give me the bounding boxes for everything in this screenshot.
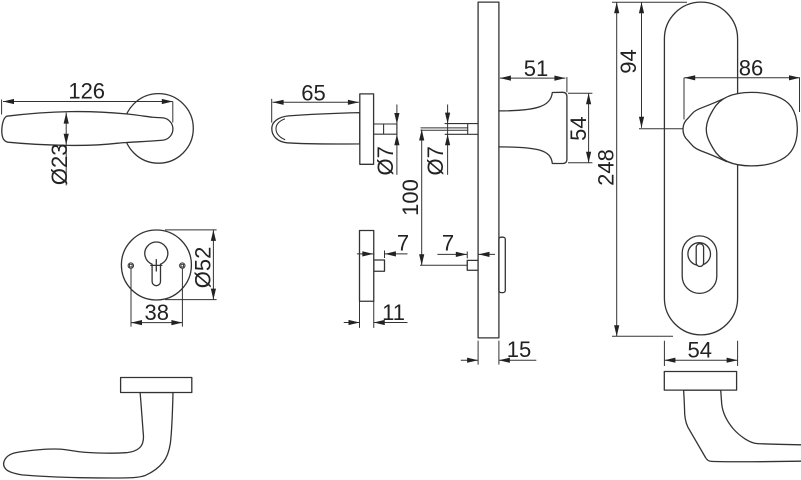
svg-text:Ø52: Ø52 bbox=[191, 247, 216, 289]
svg-text:51: 51 bbox=[524, 56, 548, 81]
arrowheads Ø23 bbox=[64, 113, 69, 124]
lever end inner arc bbox=[276, 119, 285, 140]
knob neck front view bbox=[683, 97, 727, 161]
dim Ø7 lever bbox=[396, 105, 398, 175]
key rose front view circle bbox=[121, 230, 191, 300]
arrowheads 38 bbox=[131, 320, 142, 325]
svg-text:11: 11 bbox=[382, 300, 405, 325]
dim 51 bbox=[500, 77, 567, 92]
spindle of lever bbox=[374, 124, 397, 134]
svg-text:Ø23: Ø23 bbox=[47, 144, 72, 186]
arrowheads Ø7 lever bbox=[394, 113, 399, 124]
svg-text:86: 86 bbox=[739, 56, 763, 81]
svg-text:Ø7: Ø7 bbox=[423, 146, 448, 175]
arrowheads 94 bbox=[639, 2, 644, 13]
dim 38 bbox=[131, 269, 182, 327]
arrowheads 51 bbox=[500, 76, 511, 81]
dim 248 bbox=[612, 2, 687, 336]
arrowheads dim 126 bbox=[3, 99, 14, 104]
rose side view rect of lever bbox=[360, 94, 374, 164]
backplate spindle rod bbox=[421, 128, 468, 130]
knob side view bottom-right grip bbox=[684, 390, 801, 462]
knob side view rose plate bbox=[664, 372, 736, 391]
arrowheads 54 knob side bbox=[586, 93, 591, 104]
svg-text:7: 7 bbox=[397, 230, 409, 255]
dim 15 bbox=[461, 341, 537, 365]
lever side view bottom-left grip bbox=[4, 393, 173, 479]
svg-text:Ø7: Ø7 bbox=[373, 146, 398, 175]
arrowheads 248 bbox=[614, 2, 619, 13]
knob profile side view bbox=[499, 92, 567, 163]
dim 7 key rose bbox=[357, 251, 408, 259]
cylinder guard bump side view bbox=[499, 237, 505, 292]
dim 11 bbox=[344, 322, 408, 324]
dim 65 bbox=[272, 99, 359, 123]
arrowheads 65 bbox=[273, 100, 284, 105]
dim 7 plate peg bbox=[437, 252, 495, 259]
svg-text:100: 100 bbox=[398, 179, 423, 216]
dim 94 bbox=[639, 2, 683, 129]
lever side view bottom-left rose plate bbox=[121, 378, 192, 393]
key rose side view rect bbox=[360, 231, 374, 302]
arrowheads 100 bbox=[419, 130, 424, 141]
dim 126 bbox=[2, 100, 173, 123]
svg-text:54: 54 bbox=[687, 337, 711, 362]
svg-text:7: 7 bbox=[442, 230, 454, 255]
dim 100 bbox=[420, 130, 467, 266]
backplate side view plate bbox=[478, 2, 499, 338]
center cross bbox=[151, 260, 162, 271]
backplate cylinder peg bbox=[467, 260, 478, 270]
dim Ø7 plate bbox=[447, 105, 449, 175]
knob body front view bbox=[706, 92, 797, 165]
dim Ø52 bbox=[165, 230, 217, 300]
lever handle front view bbox=[2, 112, 173, 146]
arrowheads 7 key rose bbox=[362, 251, 373, 256]
arrowheads 15 bbox=[467, 358, 478, 363]
key rose edge extension lines bbox=[360, 301, 374, 327]
screw right bbox=[180, 263, 185, 268]
svg-text:248: 248 bbox=[594, 149, 619, 186]
svg-text:65: 65 bbox=[301, 81, 325, 106]
dim 86 bbox=[684, 78, 800, 120]
backplate spindle sleeve bbox=[445, 124, 478, 135]
screw left bbox=[128, 263, 133, 268]
cylinder guard front view bbox=[682, 236, 717, 294]
svg-text:15: 15 bbox=[507, 337, 531, 362]
key rose side view peg bbox=[374, 260, 385, 271]
dim 54 plate front bbox=[664, 341, 737, 366]
profile cylinder cutout bbox=[145, 242, 168, 286]
svg-text:54: 54 bbox=[566, 116, 591, 140]
arrowheads 54 plate front bbox=[664, 358, 675, 363]
cylinder core bbox=[688, 243, 711, 266]
dim 54 knob side bbox=[568, 93, 592, 163]
svg-text:94: 94 bbox=[616, 49, 641, 73]
dim Ø23 line bbox=[65, 113, 67, 186]
arrowheads Ø7 plate bbox=[445, 113, 450, 124]
key slot bbox=[696, 244, 703, 267]
arrowheads 11 bbox=[349, 320, 360, 325]
svg-text:38: 38 bbox=[145, 300, 169, 325]
lever side view top-middle bbox=[272, 113, 360, 144]
backplate front view bbox=[664, 2, 737, 335]
arrowheads Ø52 bbox=[211, 230, 216, 241]
rose circle, lever front view bbox=[124, 94, 194, 164]
arrowheads 7 plate peg bbox=[456, 252, 467, 257]
arrowheads 86 bbox=[684, 75, 695, 80]
svg-text:126: 126 bbox=[68, 78, 105, 103]
